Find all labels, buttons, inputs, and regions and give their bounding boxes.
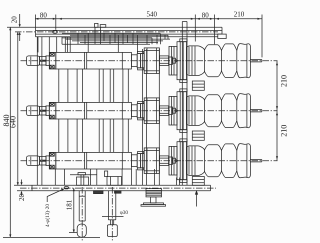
end flange <box>49 102 56 119</box>
bearing block <box>144 48 159 74</box>
svg-text:4-φ(13)·20: 4-φ(13)·20 <box>44 204 51 227</box>
operating rod B <box>107 191 117 237</box>
dimension 210 right upper <box>276 61 278 111</box>
left upright bar <box>37 37 42 186</box>
phase 2 centerline <box>21 110 278 112</box>
dimension 20 bottom-left <box>20 180 22 197</box>
end shed cup <box>237 144 249 151</box>
collar rings <box>131 105 137 117</box>
interrupter cylinder <box>56 102 132 119</box>
rod clamps under base <box>94 191 122 194</box>
insulator mounting flange <box>169 46 177 75</box>
bearing block <box>144 148 159 174</box>
end flange <box>49 152 56 169</box>
lower insulator support links <box>177 178 180 186</box>
operating rod A <box>77 191 86 238</box>
dimension 210 right lower <box>276 111 278 161</box>
svg-text:20: 20 <box>18 194 26 202</box>
base plate <box>14 185 211 190</box>
end flange <box>49 52 56 69</box>
end shed cup <box>237 44 249 51</box>
dimension 210 top <box>214 15 262 58</box>
drive shaft <box>159 156 168 166</box>
linkage plates <box>62 27 170 52</box>
insulator support posts <box>182 22 187 186</box>
collar rings <box>131 155 137 167</box>
terminal rod <box>250 59 262 61</box>
dimension 540 <box>56 15 196 42</box>
contact stem <box>169 57 173 64</box>
damper cylinder <box>26 106 39 116</box>
svg-text:210: 210 <box>279 125 288 137</box>
svg-text:80: 80 <box>40 11 48 19</box>
svg-text:181: 181 <box>66 199 74 210</box>
dimension 80 top-right <box>195 15 214 45</box>
insulator brackets <box>192 81 204 185</box>
svg-text:540: 540 <box>146 11 157 19</box>
porcelain sheds <box>187 44 237 51</box>
dimension 640 <box>17 32 19 185</box>
terminal rod <box>250 159 262 161</box>
insulator mounting flange <box>169 96 177 125</box>
phase row 2 <box>26 89 261 133</box>
dimension 840 <box>3 27 100 237</box>
rod guide bracket B <box>105 171 122 185</box>
dimension 80 top-left <box>35 15 55 30</box>
insulator mounting flange <box>169 146 177 175</box>
beam centerline <box>15 31 218 33</box>
base hole <box>64 187 69 189</box>
clevis link <box>40 106 46 110</box>
base leader <box>195 191 197 207</box>
svg-text:20: 20 <box>11 16 19 24</box>
interrupter cylinder <box>56 52 132 69</box>
collar rings <box>131 55 137 67</box>
drive shaft <box>159 106 168 116</box>
svg-text:640: 640 <box>9 116 18 128</box>
hole callout 4-13x20 <box>47 189 64 202</box>
front supports <box>38 37 65 53</box>
phase 1 centerline <box>21 60 278 62</box>
right column <box>143 49 160 185</box>
contact stem <box>169 157 173 164</box>
svg-text:80: 80 <box>202 11 210 19</box>
bearing block <box>144 98 159 124</box>
interrupter cylinder <box>56 152 132 169</box>
top tab plates <box>95 23 106 27</box>
base centerline <box>20 187 216 189</box>
phase row 1 <box>26 39 261 83</box>
damper cylinder <box>26 56 39 66</box>
damper cylinder <box>26 156 39 166</box>
clevis link <box>40 56 46 60</box>
rod guide bracket A <box>70 173 97 186</box>
svg-text:210: 210 <box>234 11 245 19</box>
clevis link <box>40 156 46 160</box>
beam hole <box>53 31 58 34</box>
svg-text:210: 210 <box>279 75 288 87</box>
terminal rod <box>250 109 262 111</box>
drive shaft <box>159 56 168 66</box>
top channel beam <box>7 27 226 38</box>
tie rods between phases <box>59 69 129 152</box>
contact stem <box>169 107 173 114</box>
porcelain sheds <box>187 94 237 101</box>
phase 3 centerline <box>21 160 278 162</box>
porcelain sheds <box>187 144 237 151</box>
dimension 181 <box>69 188 77 232</box>
support foot <box>141 189 166 207</box>
phase row 3 <box>26 139 261 183</box>
callout dia 30 <box>102 216 124 218</box>
svg-text:φ30: φ30 <box>120 210 129 216</box>
end shed cup <box>237 94 249 101</box>
dimension 20 top-left <box>19 14 21 41</box>
lower frame members <box>55 169 154 185</box>
